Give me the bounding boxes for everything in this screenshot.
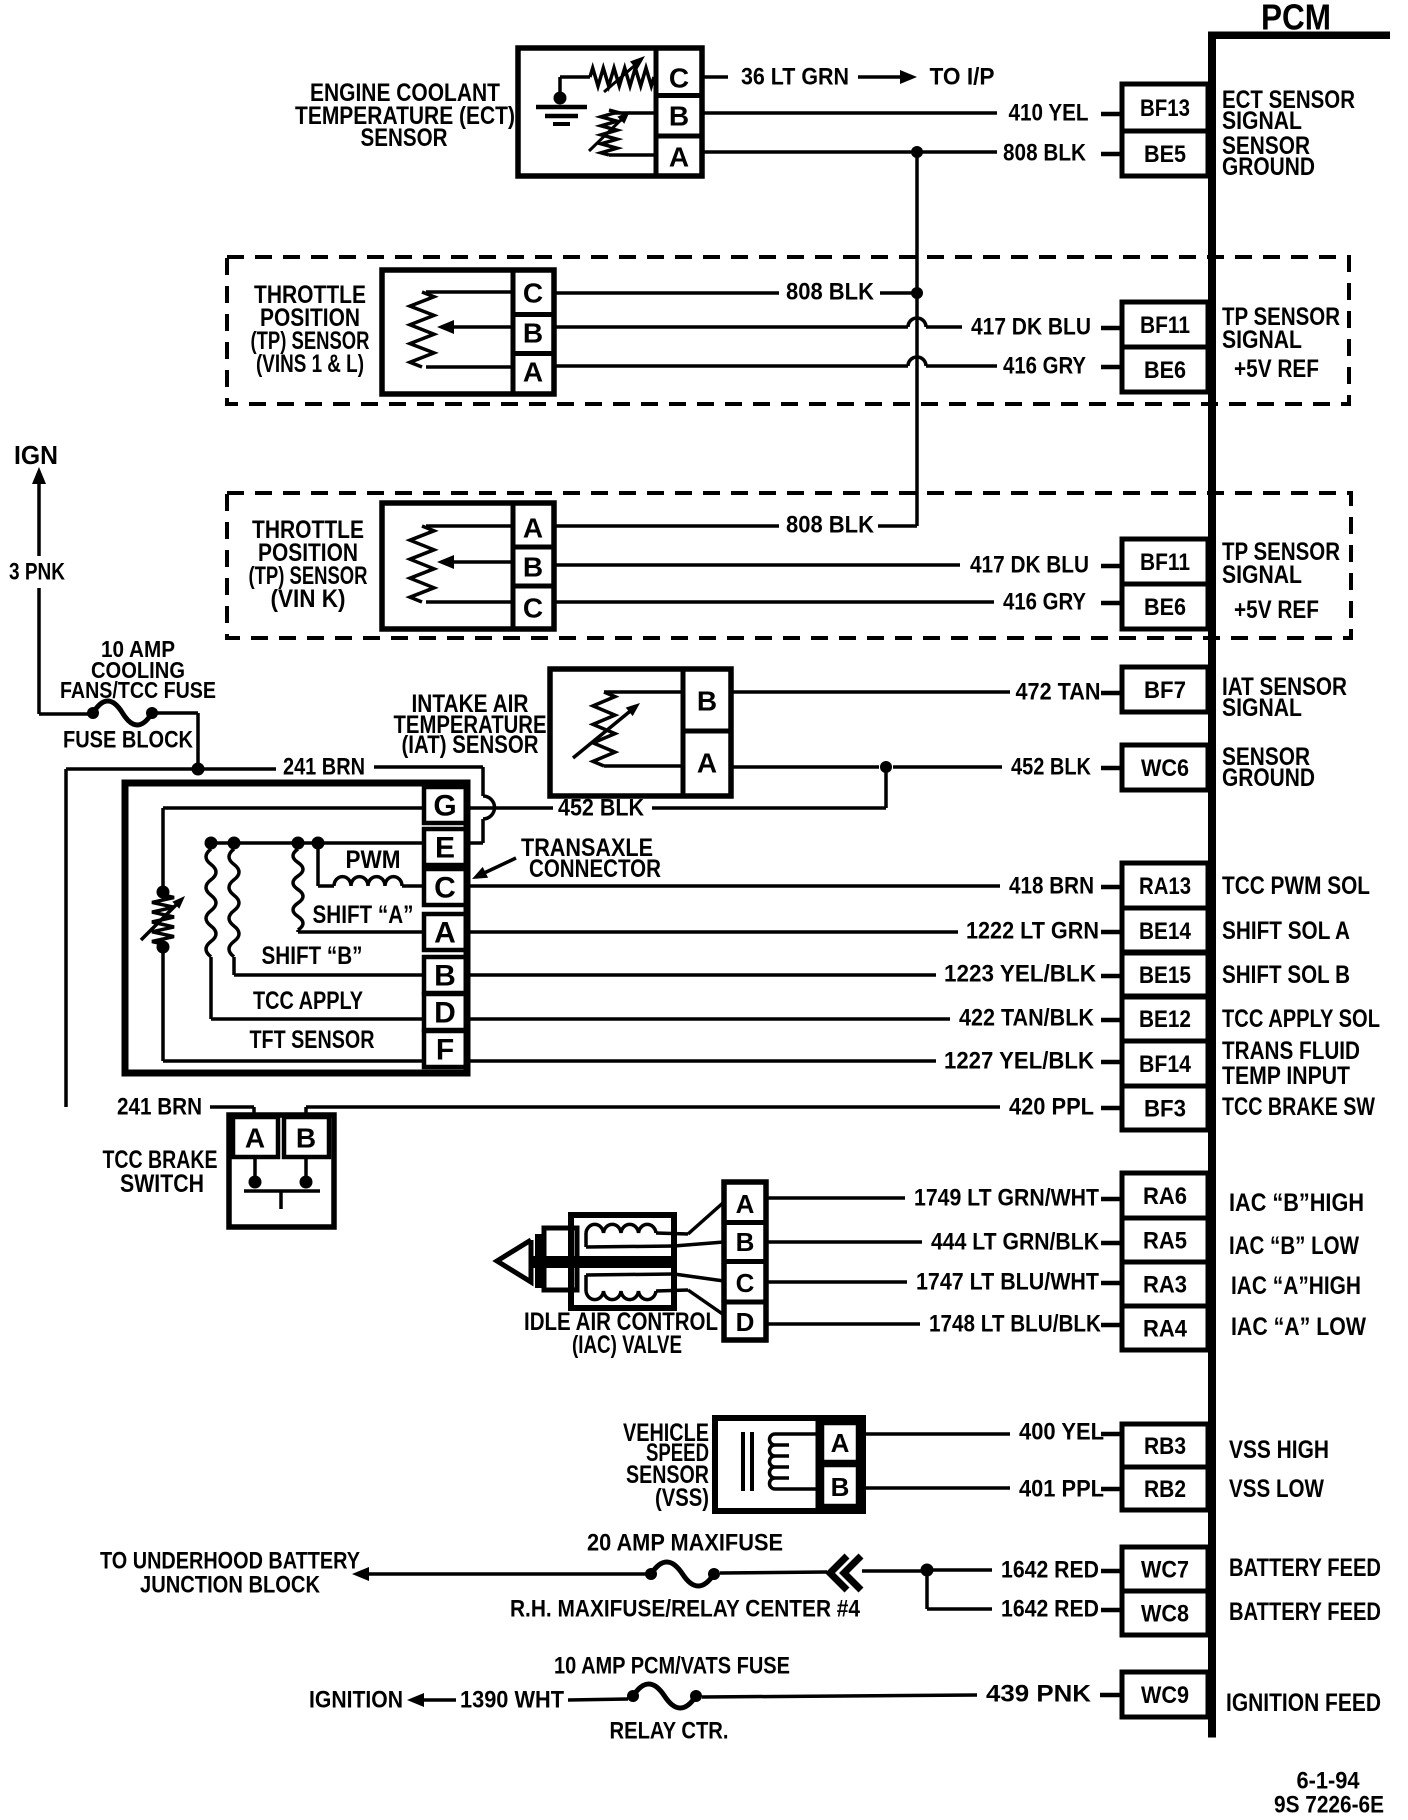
potentiometer TP1 bbox=[410, 292, 513, 367]
label TRANS FLUID TEMP INPUT bbox=[1222, 1037, 1360, 1090]
label FUSE BLOCK bbox=[63, 727, 194, 754]
PCM pin RA6 bbox=[1122, 1173, 1208, 1218]
label VSS HIGH bbox=[1229, 1436, 1329, 1464]
TP1 connector body bbox=[382, 270, 554, 394]
wire 1747 LT BLU/WHT IAC C to RA3 bbox=[766, 1280, 907, 1284]
label TFT SENSOR bbox=[250, 1026, 375, 1054]
arrow to ignition bbox=[407, 1693, 456, 1707]
svg-text:GROUND: GROUND bbox=[1222, 153, 1315, 181]
svg-text:RA4: RA4 bbox=[1143, 1316, 1188, 1343]
label 1222 LT GRN bbox=[966, 918, 1099, 945]
label ECT SENSOR SIGNAL bbox=[1222, 86, 1355, 135]
wire 472 TAN IAT B to BF7 bbox=[731, 690, 1010, 694]
inductor VSS coil bbox=[770, 1434, 821, 1489]
svg-text:439 PNK: 439 PNK bbox=[986, 1681, 1092, 1708]
svg-text:TCC PWM SOL: TCC PWM SOL bbox=[1222, 872, 1370, 900]
wire 241 BRN horizontal bbox=[66, 767, 276, 771]
svg-text:808 BLK: 808 BLK bbox=[786, 512, 875, 539]
solenoid coil SHIFT A bbox=[293, 849, 424, 932]
svg-text:D: D bbox=[434, 997, 456, 1030]
svg-text:BE14: BE14 bbox=[1139, 918, 1192, 945]
svg-text:417 DK BLU: 417 DK BLU bbox=[971, 314, 1091, 341]
IGN arrow up bbox=[32, 467, 46, 556]
svg-text:6-1-94: 6-1-94 bbox=[1297, 1768, 1361, 1795]
svg-text:418 BRN: 418 BRN bbox=[1009, 873, 1094, 900]
wire 1227 YEL/BLK pin F to BF14 bbox=[466, 1059, 936, 1063]
junction dot 808 BLK TP1 row bbox=[911, 287, 923, 299]
wire maxifuse to chevron bbox=[720, 1572, 827, 1573]
svg-text:A: A bbox=[434, 917, 456, 950]
label +5V REF second bbox=[1234, 596, 1319, 624]
svg-text:TO I/P: TO I/P bbox=[930, 64, 995, 91]
svg-text:WC7: WC7 bbox=[1141, 1557, 1189, 1584]
PCM pin RA13 bbox=[1122, 863, 1208, 908]
wire stub WC6 bbox=[1101, 766, 1121, 771]
VSS pickup core bbox=[743, 1432, 752, 1491]
svg-text:B: B bbox=[736, 1227, 755, 1257]
svg-text:BF13: BF13 bbox=[1140, 95, 1190, 122]
label VSS LOW bbox=[1229, 1475, 1324, 1503]
solenoid coil TCC APPLY bbox=[206, 849, 424, 1019]
svg-text:TRANS FLUID: TRANS FLUID bbox=[1222, 1037, 1360, 1065]
PCM pin WC6 bbox=[1122, 745, 1208, 790]
label 416 GRY bbox=[1003, 353, 1086, 380]
TP1 pin B bbox=[523, 318, 543, 349]
wire stub BF3 bbox=[1101, 1106, 1121, 1111]
TCC switch pin B bbox=[284, 1117, 329, 1157]
PCM pin BF11 second bbox=[1122, 539, 1208, 584]
label 20 AMP MAXIFUSE bbox=[587, 1530, 783, 1557]
svg-text:WC8: WC8 bbox=[1141, 1601, 1189, 1628]
svg-text:1223 YEL/BLK: 1223 YEL/BLK bbox=[944, 961, 1097, 988]
label 452 BLK left bbox=[558, 795, 645, 822]
transaxle pin B bbox=[434, 960, 456, 993]
switch contacts bbox=[244, 1157, 320, 1209]
ECT pin A bbox=[669, 142, 689, 173]
IAT sensor connector body bbox=[550, 669, 731, 796]
label TP SENSOR SIGNAL second bbox=[1222, 538, 1340, 589]
svg-text:10 AMP PCM/VATS FUSE: 10 AMP PCM/VATS FUSE bbox=[554, 1653, 790, 1680]
label 416 GRY TP2 bbox=[1003, 589, 1086, 616]
fuse 10A PCM/VATS bbox=[627, 1684, 702, 1708]
IAC coil A-low winding bbox=[586, 1275, 688, 1300]
junction dot 241 BRN bbox=[192, 763, 205, 776]
PCM pin WC8 bbox=[1122, 1591, 1208, 1635]
svg-text:RB3: RB3 bbox=[1144, 1433, 1186, 1460]
wire 401 PPL VSS B to RB2 bbox=[863, 1486, 1010, 1490]
svg-text:241 BRN: 241 BRN bbox=[117, 1094, 202, 1121]
svg-text:+5V REF: +5V REF bbox=[1234, 596, 1319, 624]
label 1390 WHT bbox=[460, 1687, 564, 1714]
wire 400 YEL VSS A to RB3 bbox=[863, 1432, 1010, 1436]
wire 808 BLK vertical bus bbox=[915, 152, 919, 526]
label 36 LT GRN bbox=[741, 64, 849, 91]
note date 6-1-94 bbox=[1297, 1768, 1361, 1795]
svg-text:472 TAN: 472 TAN bbox=[1016, 679, 1101, 706]
PCM pin WC7 bbox=[1122, 1547, 1208, 1591]
svg-text:SWITCH: SWITCH bbox=[120, 1170, 204, 1198]
svg-text:(VSS): (VSS) bbox=[655, 1484, 709, 1512]
ECT pin C bbox=[669, 63, 689, 94]
label SHIFT A bbox=[313, 901, 414, 929]
svg-text:BE6: BE6 bbox=[1144, 594, 1186, 621]
svg-text:SIGNAL: SIGNAL bbox=[1222, 107, 1302, 135]
label 1223 YEL/BLK bbox=[944, 961, 1097, 988]
label 241 BRN lower bbox=[117, 1094, 202, 1121]
TP2 pin C bbox=[523, 593, 543, 624]
svg-text:416 GRY: 416 GRY bbox=[1003, 353, 1086, 380]
wire stub WC9 bbox=[1100, 1693, 1121, 1698]
IAC pin B bbox=[736, 1227, 755, 1257]
wire 808 BLK TP1 C bbox=[554, 291, 779, 295]
label 1642 RED second bbox=[1001, 1596, 1099, 1623]
wire stub RA6 bbox=[1101, 1197, 1121, 1202]
wire chevron to junction bbox=[862, 1569, 921, 1573]
svg-text:(IAC) VALVE: (IAC) VALVE bbox=[572, 1331, 682, 1359]
svg-text:IGNITION: IGNITION bbox=[309, 1687, 403, 1714]
label 241 BRN bbox=[283, 754, 365, 781]
label TCC APPLY SOL bbox=[1222, 1005, 1380, 1033]
svg-text:SHIFT “B”: SHIFT “B” bbox=[262, 942, 363, 970]
svg-text:1390 WHT: 1390 WHT bbox=[460, 1687, 564, 1714]
wire 241 BRN left vertical bbox=[64, 769, 68, 1107]
IAT pin B bbox=[697, 686, 717, 717]
wire 420 PPL switch B to BF3 bbox=[306, 1107, 1000, 1117]
TP1 pin C bbox=[523, 278, 543, 309]
transaxle connector pin column bbox=[424, 787, 466, 1067]
PCM pin BE6 bbox=[1122, 347, 1208, 392]
label 417 DK BLU TP2 bbox=[970, 552, 1089, 579]
svg-text:420 PPL: 420 PPL bbox=[1009, 1094, 1094, 1121]
svg-text:400 YEL: 400 YEL bbox=[1019, 1419, 1104, 1446]
svg-text:1642 RED: 1642 RED bbox=[1001, 1596, 1099, 1623]
svg-text:1747 LT BLU/WHT: 1747 LT BLU/WHT bbox=[916, 1269, 1099, 1296]
TP1 wiper arrow bbox=[437, 320, 513, 334]
label TRANSAXLE CONNECTOR bbox=[521, 834, 661, 883]
svg-text:BF3: BF3 bbox=[1144, 1096, 1186, 1123]
label 401 PPL bbox=[1019, 1476, 1104, 1503]
label 418 BRN bbox=[1009, 873, 1094, 900]
label 808 BLK bbox=[1003, 140, 1087, 167]
svg-text:1749 LT GRN/WHT: 1749 LT GRN/WHT bbox=[914, 1185, 1099, 1212]
wire TFT sensor to pin F bbox=[163, 950, 424, 1061]
wire 1642 RED branch bbox=[927, 1570, 992, 1609]
svg-text:B: B bbox=[523, 552, 543, 583]
TP2 wiper arrow bbox=[437, 555, 513, 569]
label IAT SENSOR SIGNAL bbox=[1222, 673, 1347, 722]
potentiometer TP2 bbox=[410, 526, 513, 602]
label TP SENSOR SIGNAL bbox=[1222, 303, 1340, 354]
svg-text:PWM: PWM bbox=[346, 846, 401, 874]
wire 452 BLK to pin G bbox=[466, 806, 553, 810]
label 417 DK BLU bbox=[971, 314, 1091, 341]
svg-text:SHIFT SOL A: SHIFT SOL A bbox=[1222, 917, 1350, 945]
label IGNITION bbox=[309, 1687, 403, 1714]
svg-text:417 DK BLU: 417 DK BLU bbox=[970, 552, 1089, 579]
wire 241 BRN to transaxle E bbox=[374, 767, 495, 843]
PCM pin BE5 bbox=[1122, 131, 1208, 176]
svg-text:F: F bbox=[436, 1034, 454, 1067]
note document number 9S 7226-6E bbox=[1274, 1792, 1384, 1819]
label BATTERY FEED second bbox=[1229, 1598, 1381, 1626]
svg-text:1227 YEL/BLK: 1227 YEL/BLK bbox=[944, 1048, 1095, 1075]
IAC valve pintle cone bbox=[497, 1234, 542, 1288]
IAC valve shaft bbox=[531, 1256, 674, 1268]
ECT sensor connector body bbox=[518, 48, 702, 176]
PCM pin RA3 bbox=[1122, 1262, 1208, 1306]
PCM pin RA4 bbox=[1122, 1306, 1208, 1350]
arrow to battery junction block bbox=[352, 1567, 648, 1581]
wire stub RA5 bbox=[1101, 1241, 1121, 1246]
svg-text:IAC “A”HIGH: IAC “A”HIGH bbox=[1231, 1272, 1361, 1300]
wire IAC winding to pin A bbox=[688, 1202, 724, 1234]
transaxle connector pointer arrow bbox=[472, 858, 516, 879]
svg-text:TEMP INPUT: TEMP INPUT bbox=[1222, 1062, 1350, 1090]
junction dot 808 BLK bbox=[911, 146, 923, 158]
wire stub BE5 bbox=[1101, 152, 1121, 157]
svg-text:BATTERY FEED: BATTERY FEED bbox=[1229, 1598, 1381, 1626]
label 1748 LT BLU/BLK bbox=[929, 1311, 1102, 1338]
IAC coil B-high winding bbox=[586, 1224, 688, 1247]
junction dot bus 3 bbox=[292, 837, 305, 850]
wire stub BF11 second bbox=[1101, 564, 1121, 569]
svg-text:241 BRN: 241 BRN bbox=[283, 754, 365, 781]
svg-text:A: A bbox=[831, 1428, 850, 1458]
label IAC B LOW bbox=[1229, 1232, 1359, 1260]
label 808 BLK TP2 bbox=[786, 512, 875, 539]
svg-text:B: B bbox=[523, 318, 543, 349]
svg-text:IGNITION FEED: IGNITION FEED bbox=[1226, 1689, 1381, 1717]
wire 1642 RED to WC7 bbox=[933, 1568, 992, 1572]
wire 808 BLK TP2 elbow bbox=[878, 524, 917, 528]
thermistor IAT element bbox=[573, 692, 683, 766]
label SHIFT SOL A bbox=[1222, 917, 1350, 945]
label BATTERY FEED first bbox=[1229, 1554, 1381, 1582]
label 3 PNK bbox=[9, 559, 66, 586]
label 1642 RED first bbox=[1001, 1557, 1099, 1584]
PCM pin BE15 bbox=[1122, 952, 1208, 997]
svg-text:TCC APPLY SOL: TCC APPLY SOL bbox=[1222, 1005, 1380, 1033]
svg-text:B: B bbox=[434, 960, 456, 993]
thermistor ECT sensing element bbox=[589, 110, 656, 155]
transaxle internal components box bbox=[125, 783, 467, 1073]
svg-text:R.H. MAXIFUSE/RELAY CENTER #4: R.H. MAXIFUSE/RELAY CENTER #4 bbox=[510, 1596, 861, 1623]
wire 808 BLK TP1 to junction bbox=[880, 291, 912, 295]
IAC connector pin column bbox=[724, 1182, 766, 1340]
svg-text:SIGNAL: SIGNAL bbox=[1222, 326, 1302, 354]
transaxle pin D bbox=[434, 997, 456, 1030]
PCM pin BF3 bbox=[1122, 1086, 1208, 1130]
svg-text:A: A bbox=[736, 1189, 755, 1219]
svg-text:1748 LT BLU/BLK: 1748 LT BLU/BLK bbox=[929, 1311, 1102, 1338]
transaxle pin F bbox=[436, 1034, 454, 1067]
dashed enclosure TP sensor VIN K bbox=[227, 493, 1351, 638]
svg-text:B: B bbox=[697, 686, 717, 717]
label 808 BLK TP1 bbox=[786, 279, 875, 306]
svg-text:SHIFT SOL B: SHIFT SOL B bbox=[1222, 961, 1350, 989]
IAC pin D bbox=[736, 1307, 755, 1337]
svg-text:RA3: RA3 bbox=[1143, 1272, 1187, 1299]
PCM pin BF13 bbox=[1122, 84, 1208, 131]
label SHIFT B bbox=[262, 942, 363, 970]
wire 452 BLK drop to transaxle G bbox=[652, 767, 886, 808]
label ENGINE COOLANT TEMPERATURE (ECT) SENSOR bbox=[295, 79, 515, 152]
IAC coil return top bbox=[586, 1242, 724, 1247]
transaxle pin A bbox=[434, 917, 456, 950]
svg-text:VSS LOW: VSS LOW bbox=[1229, 1475, 1324, 1503]
svg-text:GROUND: GROUND bbox=[1222, 764, 1315, 792]
label TCC PWM SOL bbox=[1222, 872, 1370, 900]
svg-text:C: C bbox=[669, 63, 689, 94]
svg-text:452 BLK: 452 BLK bbox=[1011, 754, 1092, 781]
PCM pin BF7 bbox=[1122, 667, 1208, 712]
IAC pin C bbox=[736, 1268, 755, 1298]
svg-text:BE15: BE15 bbox=[1139, 962, 1191, 989]
svg-text:IAC “B” LOW: IAC “B” LOW bbox=[1229, 1232, 1359, 1260]
wire ground to resistor bbox=[560, 75, 590, 79]
PCM pin BE14 bbox=[1122, 908, 1208, 953]
svg-text:BF14: BF14 bbox=[1139, 1051, 1192, 1078]
label 10 AMP COOLING FANS/TCC FUSE bbox=[60, 636, 216, 703]
label TCC APPLY bbox=[253, 987, 363, 1015]
wire 417 DK BLU TP1 B to BF11 bbox=[554, 318, 962, 327]
wire pin G to TFT sensor bbox=[163, 808, 424, 889]
PCM pin BF11 bbox=[1122, 302, 1208, 347]
wire stub BF13 bbox=[1101, 112, 1121, 117]
svg-text:TCC APPLY: TCC APPLY bbox=[253, 987, 363, 1015]
svg-text:VSS HIGH: VSS HIGH bbox=[1229, 1436, 1329, 1464]
wire stub BE6 bbox=[1101, 365, 1121, 370]
junction dot 452 BLK bbox=[880, 761, 892, 773]
wire stub RA13 bbox=[1101, 885, 1121, 890]
connector chevrons bbox=[830, 1556, 861, 1590]
label TO I/P bbox=[930, 64, 995, 91]
TP2 pin B bbox=[523, 552, 543, 583]
transaxle pin C bbox=[434, 872, 456, 905]
label RELAY CTR. bbox=[610, 1718, 729, 1745]
wire 416 GRY TP2 C to BE6 bbox=[554, 600, 994, 604]
svg-text:C: C bbox=[523, 278, 543, 309]
label 439 PNK bbox=[986, 1681, 1092, 1708]
TCC brake switch body bbox=[229, 1115, 334, 1227]
svg-text:WC9: WC9 bbox=[1141, 1682, 1189, 1709]
wire 1748 LT BLU/BLK IAC D to RA4 bbox=[766, 1322, 920, 1326]
svg-text:(VIN K): (VIN K) bbox=[271, 585, 346, 613]
svg-text:BF7: BF7 bbox=[1144, 677, 1186, 704]
wire stub BF11 bbox=[1101, 326, 1121, 331]
wire stub BE14 bbox=[1101, 930, 1121, 935]
wire stub BF14 bbox=[1101, 1060, 1121, 1065]
svg-text:A: A bbox=[697, 748, 717, 779]
svg-text:TO UNDERHOOD BATTERY: TO UNDERHOOD BATTERY bbox=[100, 1548, 360, 1575]
PCM pin BE12 bbox=[1122, 996, 1208, 1041]
svg-text:D: D bbox=[736, 1307, 755, 1337]
wire 808 BLK TP2 A bbox=[554, 524, 779, 528]
transaxle pin G bbox=[433, 790, 456, 823]
wire stub BE15 bbox=[1101, 974, 1121, 979]
label 400 YEL bbox=[1019, 1419, 1104, 1446]
wire 1223 YEL/BLK pin B to BE15 bbox=[466, 973, 936, 977]
svg-text:A: A bbox=[523, 513, 543, 544]
wire solenoid supply bus from pin E bbox=[211, 841, 424, 845]
PCM pin WC9 bbox=[1122, 1672, 1208, 1717]
label THROTTLE POSITION (TP) SENSOR (VIN K) bbox=[249, 516, 368, 613]
svg-text:IGN: IGN bbox=[14, 440, 58, 470]
label SENSOR GROUND bbox=[1222, 132, 1315, 181]
IAC pin A bbox=[736, 1189, 755, 1219]
svg-text:IAC “A” LOW: IAC “A” LOW bbox=[1231, 1313, 1366, 1341]
svg-text:401 PPL: 401 PPL bbox=[1019, 1476, 1104, 1503]
svg-text:TFT SENSOR: TFT SENSOR bbox=[250, 1026, 375, 1054]
svg-text:9S 7226-6E: 9S 7226-6E bbox=[1274, 1792, 1384, 1819]
label THROTTLE POSITION (TP) SENSOR (VINS 1 & L) bbox=[251, 281, 370, 378]
label IAC A LOW bbox=[1231, 1313, 1366, 1341]
svg-text:C: C bbox=[523, 593, 543, 624]
label INTAKE AIR TEMPERATURE (IAT) SENSOR bbox=[394, 690, 547, 759]
VSS pin B bbox=[822, 1465, 858, 1506]
svg-text:A: A bbox=[669, 142, 689, 173]
PCM connector vertical bus bar bbox=[1208, 32, 1216, 1738]
svg-text:1642 RED: 1642 RED bbox=[1001, 1557, 1099, 1584]
svg-text:BE12: BE12 bbox=[1139, 1006, 1191, 1033]
arrow to I/P bbox=[858, 70, 917, 84]
wire 1390 WHT to fuse bbox=[568, 1699, 628, 1700]
wire 241 BRN to switch A bbox=[210, 1107, 254, 1117]
label 452 BLK right bbox=[1011, 754, 1092, 781]
fuse 20A maxifuse bbox=[645, 1562, 720, 1586]
label PWM bbox=[346, 846, 401, 874]
wire 1749 LT GRN/WHT IAC A to RA6 bbox=[766, 1196, 905, 1200]
wire 3 PNK vertical bbox=[39, 588, 88, 714]
label IGN bbox=[14, 440, 58, 470]
wire IAC winding to pin D bbox=[688, 1290, 724, 1315]
wire stub WC7 bbox=[1101, 1569, 1121, 1574]
fuse 10A cooling fans/TCC bbox=[87, 701, 158, 725]
svg-text:A: A bbox=[523, 357, 543, 388]
wire 417 DK BLU TP2 B to BF11 bbox=[554, 563, 960, 567]
svg-text:BE5: BE5 bbox=[1144, 141, 1186, 168]
junction dot bus 1 bbox=[205, 837, 218, 850]
svg-text:410 YEL: 410 YEL bbox=[1009, 100, 1089, 127]
wire 1222 LT GRN pin A to BE14 bbox=[466, 930, 958, 934]
solenoid coil PWM bbox=[318, 843, 424, 886]
svg-text:1222 LT GRN: 1222 LT GRN bbox=[966, 918, 1099, 945]
svg-text:36 LT GRN: 36 LT GRN bbox=[741, 64, 849, 91]
wire ECT C to 36 LT GRN bbox=[702, 75, 728, 79]
svg-text:808 BLK: 808 BLK bbox=[786, 279, 875, 306]
svg-text:TCC BRAKE SW: TCC BRAKE SW bbox=[1222, 1093, 1375, 1121]
wire stub BE12 bbox=[1101, 1018, 1121, 1023]
PCM pin BF14 bbox=[1122, 1041, 1208, 1086]
VSS body bbox=[715, 1418, 863, 1511]
svg-text:FUSE BLOCK: FUSE BLOCK bbox=[63, 727, 194, 754]
PCM module label bbox=[1261, 0, 1331, 38]
svg-text:RA5: RA5 bbox=[1143, 1228, 1187, 1255]
svg-text:+5V REF: +5V REF bbox=[1234, 355, 1319, 383]
label 1749 LT GRN/WHT bbox=[914, 1185, 1099, 1212]
wire stub RB3 bbox=[1101, 1432, 1121, 1437]
svg-text:BATTERY FEED: BATTERY FEED bbox=[1229, 1554, 1381, 1582]
label TCC BRAKE SWITCH bbox=[103, 1146, 218, 1198]
junction dot bus 4 bbox=[312, 837, 325, 850]
dashed enclosure TP sensor VINS 1 and L bbox=[227, 257, 1349, 404]
junction dot bus 2 bbox=[228, 837, 241, 850]
label R.H. MAXIFUSE/RELAY CENTER #4 bbox=[510, 1596, 861, 1623]
TP2 connector body bbox=[382, 503, 554, 629]
PCM pin RA5 bbox=[1122, 1218, 1208, 1262]
svg-text:B: B bbox=[296, 1123, 316, 1154]
TP2 pin A bbox=[523, 513, 543, 544]
